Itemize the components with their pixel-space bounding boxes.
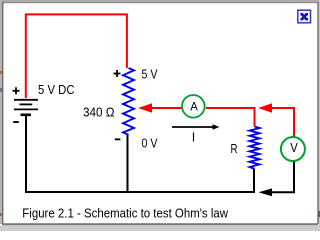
wire: red from ammeter to node above R — [206, 107, 256, 109]
window frame right edge — [319, 0, 320, 231]
svg-text:V: V — [290, 140, 298, 155]
wire: potentiometer bottom to ground rail — [127, 135, 129, 192]
window frame top edge — [0, 0, 320, 2]
battery - label — [13, 121, 19, 123]
svg-text:R: R — [231, 142, 238, 156]
resistor R (blue zigzag) — [250, 127, 260, 169]
current arrow I (black) — [172, 124, 220, 130]
ammeter A (meter U1) — [182, 95, 205, 118]
battery B1 (5 V DC) — [14, 100, 38, 115]
svg-text:I: I — [192, 130, 195, 144]
svg-text:5 V DC: 5 V DC — [38, 83, 75, 97]
wiper arrow (red) from ammeter into potentiometer — [138, 103, 182, 113]
svg-text:340 Ω: 340 Ω — [83, 104, 115, 119]
potentiometer - label — [115, 138, 121, 140]
window frame bottom edge — [0, 225, 320, 231]
wire: black ground rail from battery - along the bottom to resistor R — [26, 116, 255, 192]
battery + label — [13, 87, 20, 94]
window frame left edge — [0, 0, 2, 224]
wire: red node drop to resistor R top — [254, 107, 256, 127]
potentiometer + label — [114, 70, 121, 77]
close button X — [298, 10, 311, 23]
svg-text:A: A — [190, 100, 198, 114]
voltmeter V (meter U2) — [281, 137, 305, 161]
left edge specks — [0, 71, 2, 74]
wire: red loop from battery + up across the top and down to potentiometer top — [26, 14, 127, 98]
wire: red down to voltmeter top — [293, 107, 295, 137]
voltmeter branch arrow (red) pointing into node above R — [258, 103, 294, 113]
wire: resistor R bottom to ground rail — [253, 169, 255, 193]
svg-text:5 V: 5 V — [142, 67, 159, 81]
svg-text:Figure 2.1 - Schematic to test: Figure 2.1 - Schematic to test Ohm's law — [22, 205, 228, 220]
wire: black from voltmeter bottom to ground rail with arrow into R node — [259, 162, 295, 196]
potentiometer VR1 340 ohm (blue zigzag) — [123, 68, 134, 135]
svg-text:0 V: 0 V — [142, 137, 159, 151]
